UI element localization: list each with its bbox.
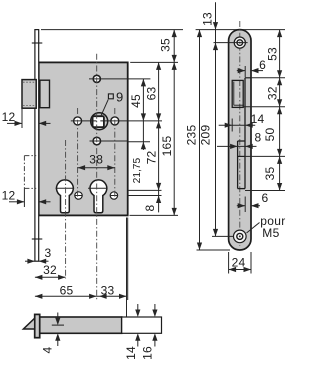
dim 72 arrows: [156, 121, 161, 128]
svg-text:33: 33: [101, 284, 115, 298]
svg-text:24: 24: [232, 255, 246, 269]
plate centreline: [239, 21, 241, 246]
ext line body right lower: [127, 218, 129, 301]
deadbolt phantom: [24, 155, 36, 157]
dim 4 arrows: [57, 313, 59, 319]
deadbolt cutout: [237, 141, 239, 189]
dim 6 bottom: [237, 205, 245, 207]
right col ext 190.5: [245, 190, 285, 192]
side view case bar: [40, 317, 122, 333]
bottom hole ext line: [212, 235, 234, 237]
dim 63 arrows: [156, 62, 161, 70]
svg-text:12: 12: [2, 189, 16, 203]
inner long line: [244, 78, 246, 189]
follower round hole: [91, 113, 108, 130]
deadbolt end line: [238, 155, 245, 157]
dim 38: [78, 167, 115, 169]
euro cylinder hole right: [90, 180, 107, 213]
euro cylinder hole left: [57, 180, 74, 213]
svg-text:6: 6: [262, 191, 269, 205]
right col ext 156.4: [244, 155, 285, 157]
strip tick top: [32, 42, 43, 44]
dim 65: [35, 295, 97, 297]
svg-text:12: 12: [2, 110, 16, 124]
dim 235 line: [199, 30, 201, 250]
svg-text:209: 209: [199, 125, 213, 146]
dim 33: [97, 295, 127, 297]
lock case body: [39, 62, 128, 215]
svg-text:32: 32: [265, 86, 279, 100]
dim 32 plate: [277, 78, 282, 86]
bottom hole: [93, 137, 101, 145]
svg-text:14: 14: [251, 112, 265, 126]
right col ext 106.8: [243, 106, 285, 108]
cylinder left cross tick: [56, 187, 75, 189]
top hole ext line: [214, 42, 248, 44]
svg-text:8: 8: [143, 204, 157, 211]
svg-text:50: 50: [263, 128, 277, 142]
dim 21,75 arrow: [141, 142, 146, 150]
hole left of follower: [74, 117, 82, 125]
dim 209 13 line: [215, 2, 217, 236]
dim 13 arrows: [213, 22, 218, 30]
latch bolt: [22, 80, 36, 109]
ext line 33 to side view: [126, 218, 128, 317]
svg-text:9: 9: [116, 89, 123, 104]
small hole right: [110, 192, 117, 199]
pour M5 leader: [247, 223, 260, 234]
svg-text:M5: M5: [262, 226, 279, 240]
dim 3: [25, 260, 35, 262]
strip tick bottom: [32, 238, 43, 240]
hole right of follower: [111, 117, 119, 125]
faceplate plate: [229, 30, 251, 250]
dim 35 arrows: [172, 30, 177, 37]
svg-text:53: 53: [265, 47, 279, 61]
dim line A: [142, 79, 144, 150]
top hole line to dim A: [89, 78, 150, 80]
body top ext line: [130, 61, 178, 63]
label 9 leader: [101, 100, 108, 117]
svg-text:165: 165: [160, 136, 174, 157]
svg-text:63: 63: [144, 87, 158, 101]
side view latch extension: [122, 317, 162, 333]
top screw hole: [234, 37, 245, 48]
latch bevel dots: [23, 81, 35, 83]
dim 16 side arrows: [154, 304, 156, 310]
svg-text:8: 8: [255, 131, 262, 145]
dim 8 arrow: [156, 196, 161, 204]
dim 35 plate: [277, 156, 282, 164]
dim 50: [277, 107, 282, 115]
dim 24: [228, 252, 230, 274]
follower axis line left: [71, 120, 97, 122]
ext line y142: [128, 141, 150, 143]
side view latch wedge: [23, 318, 34, 329]
dim 6 top: [237, 70, 245, 72]
centreline cylinder left: [65, 140, 67, 279]
ext line deadbolt front: [23, 188, 25, 207]
svg-text:3: 3: [45, 246, 52, 260]
follower square 9mm: [93, 116, 104, 127]
svg-text:72: 72: [144, 151, 158, 165]
dim col line: [279, 30, 281, 191]
latch guide box: [40, 80, 50, 108]
svg-text:13: 13: [201, 12, 215, 26]
small holes ticks: [75, 195, 83, 197]
tick 6 top: [244, 66, 246, 77]
dim 53: [277, 30, 282, 37]
ext lines 38: [77, 108, 79, 200]
ext line y190: [128, 189, 162, 191]
svg-text:32: 32: [43, 263, 57, 277]
dim 209 arrows: [213, 229, 218, 237]
latch inner lines: [233, 82, 235, 106]
centreline vertical main: [96, 54, 98, 300]
tick 6 bottom: [244, 197, 246, 213]
dim line B: [158, 62, 160, 212]
follower axis line right: [100, 120, 162, 122]
dim 14 plate: [219, 124, 256, 126]
dim 12 bottom: [9, 201, 24, 203]
dim 8 plate: [217, 145, 257, 147]
dim 14 side arrows: [137, 304, 139, 310]
faceplate edge strip: [35, 30, 39, 262]
latch cutout: [232, 80, 243, 107]
svg-text:4: 4: [41, 346, 55, 353]
label 9 square symbol: [108, 94, 113, 99]
dim 4 ref line: [52, 324, 64, 326]
inner top line: [245, 77, 251, 79]
body bottom ext line: [130, 214, 179, 216]
dim 32 line: [35, 276, 66, 278]
bottom hole line: [90, 140, 128, 142]
svg-text:21,75: 21,75: [132, 158, 143, 184]
svg-text:38: 38: [89, 152, 103, 166]
svg-text:35: 35: [263, 167, 277, 181]
svg-text:235: 235: [184, 125, 198, 146]
svg-text:35: 35: [158, 38, 172, 52]
bottom screw hole: [234, 230, 247, 243]
small hole left: [75, 192, 82, 199]
svg-text:16: 16: [141, 346, 155, 360]
right col ext 77.8: [251, 77, 285, 79]
top hole: [93, 75, 100, 82]
svg-text:14: 14: [124, 346, 138, 360]
ext line srow: [128, 195, 162, 197]
ext line latch front top: [21, 108, 23, 128]
svg-text:6: 6: [259, 58, 266, 72]
svg-text:65: 65: [60, 284, 74, 298]
tick 14 left: [231, 119, 233, 132]
top extension line: [41, 29, 183, 31]
dim 45 arrows: [141, 79, 146, 87]
side view faceplate section: [35, 314, 40, 337]
cylinder right cross tick: [88, 187, 108, 189]
dim 12 top: [7, 122, 22, 124]
svg-text:45: 45: [129, 94, 143, 108]
plate bottom ext line: [197, 249, 231, 251]
dim line C: [173, 30, 175, 216]
dim 165 arrows: [172, 62, 177, 70]
